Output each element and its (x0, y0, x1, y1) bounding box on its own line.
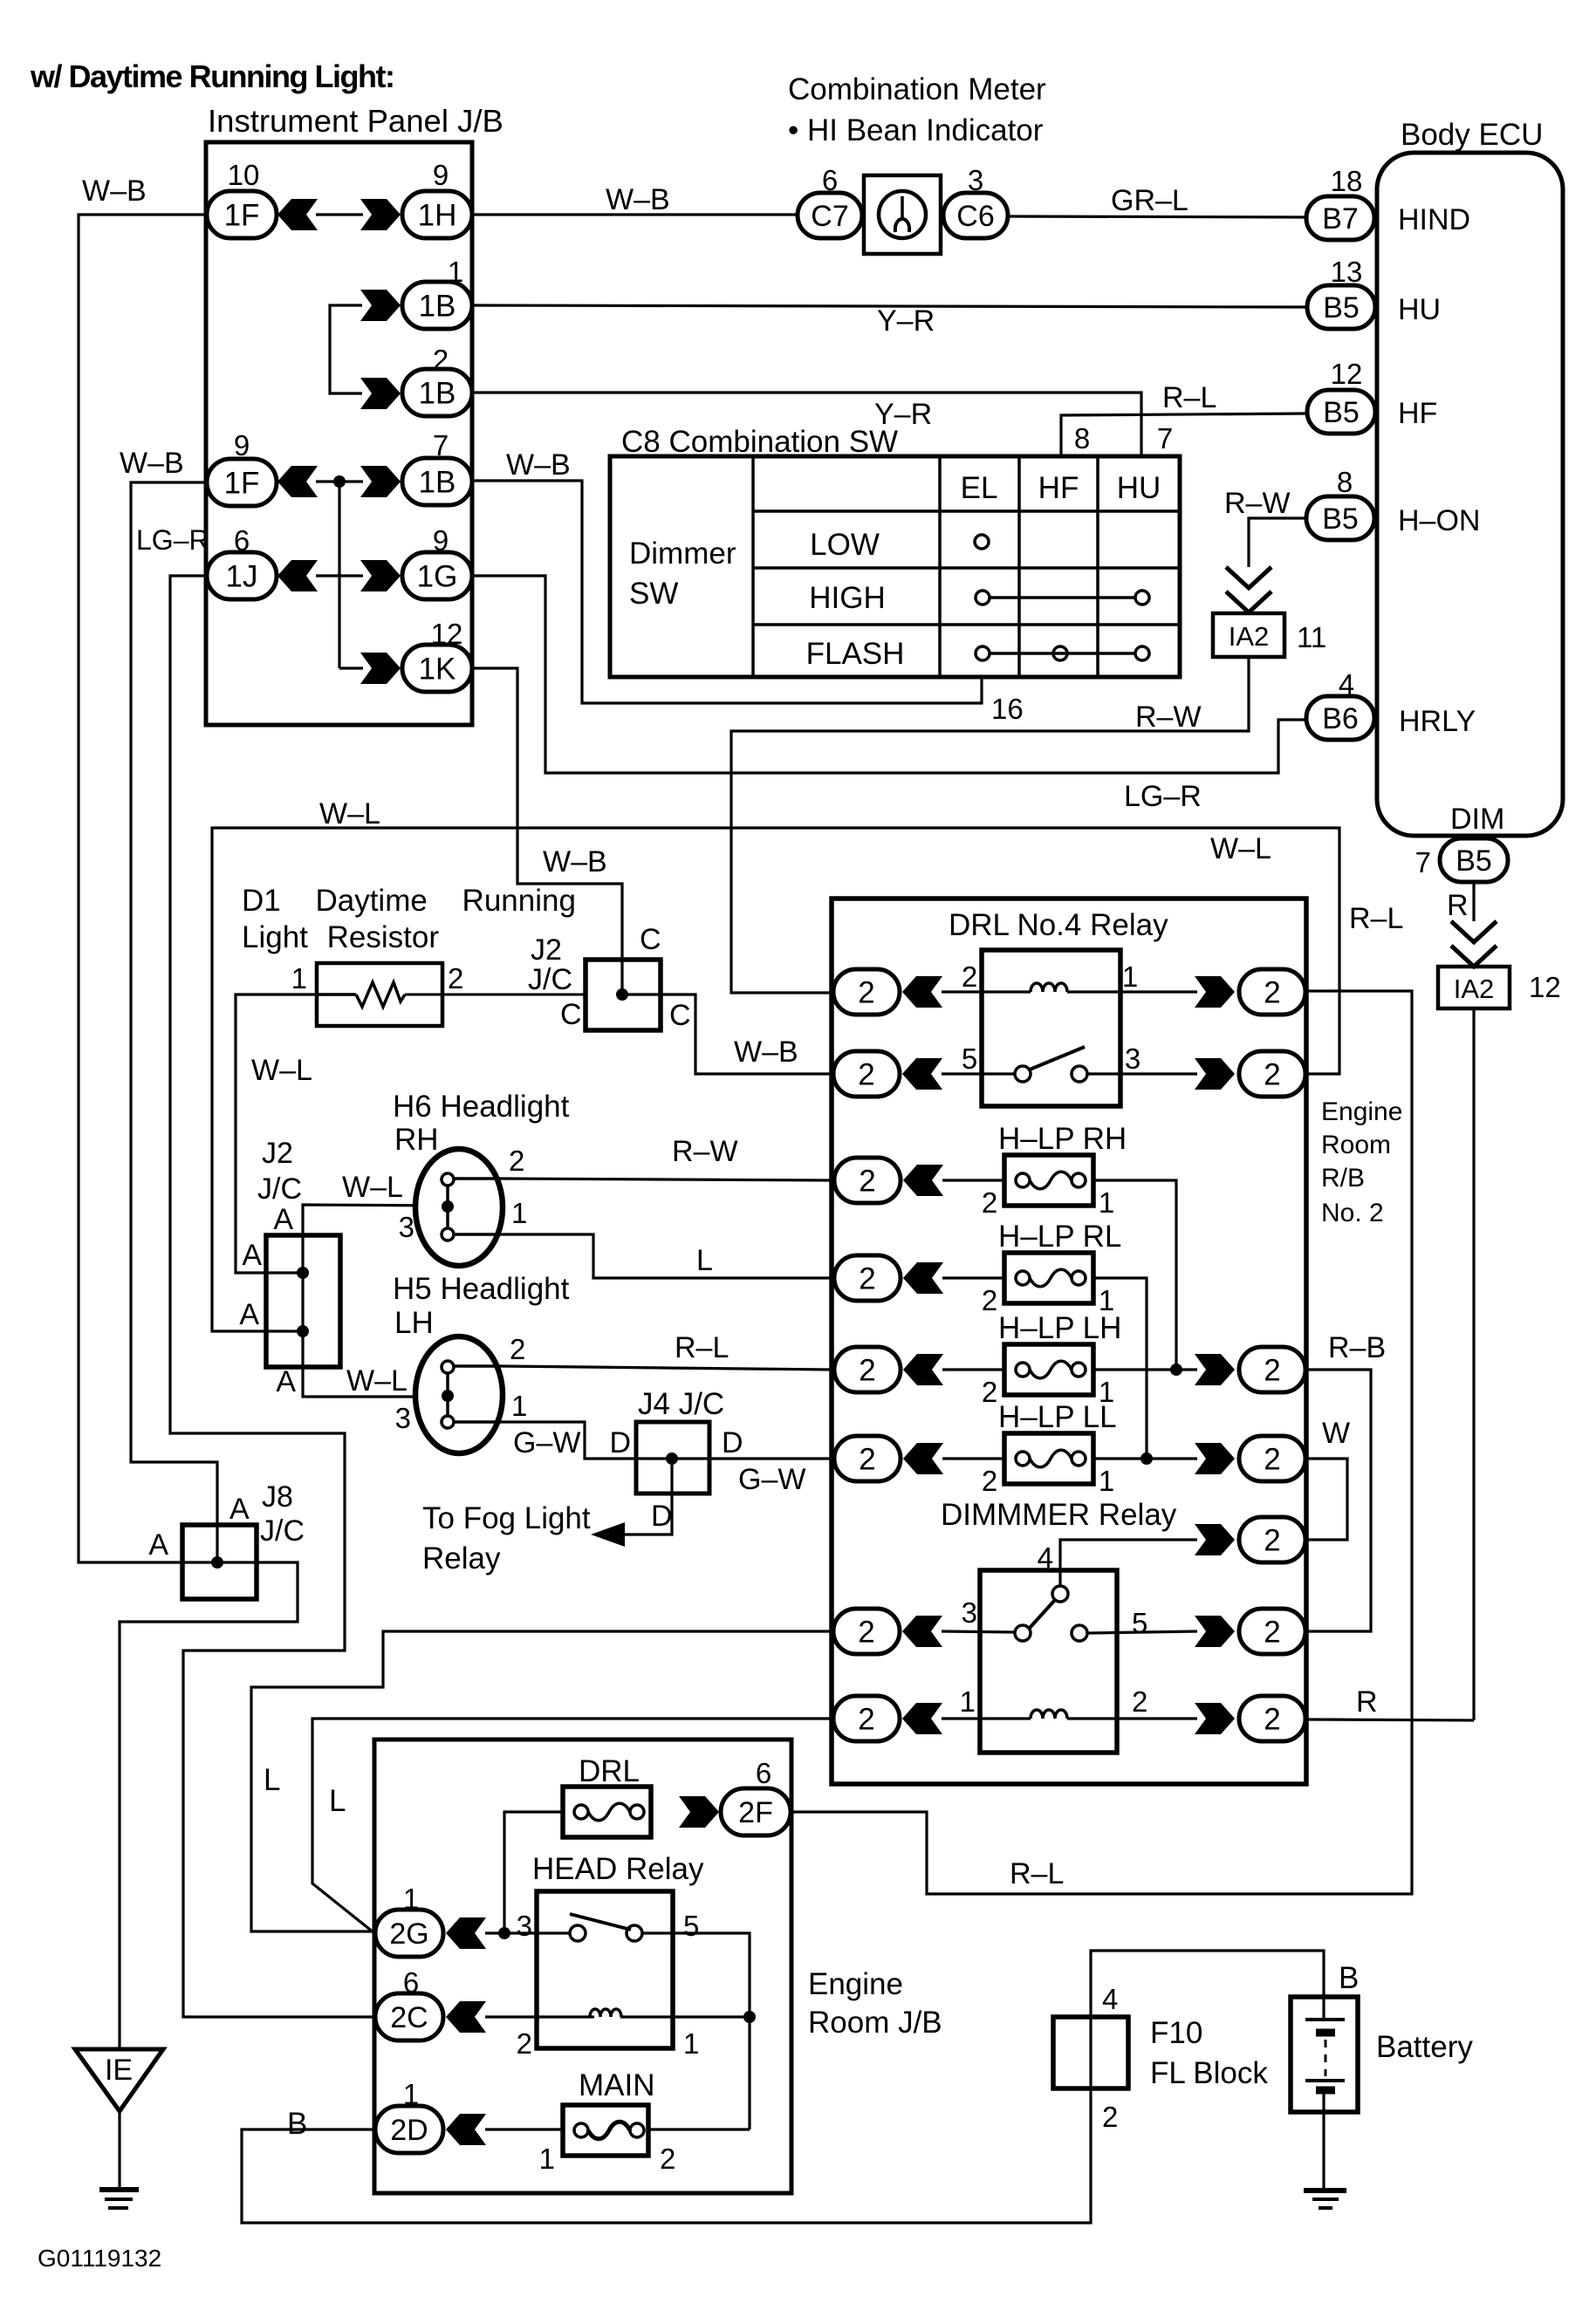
svg-text:2: 2 (509, 1145, 524, 1177)
svg-text:C: C (669, 999, 691, 1032)
svg-text:2: 2 (859, 1165, 875, 1199)
label C right (669, 999, 691, 1032)
label W-L H6 (342, 1171, 403, 1204)
svg-text:H–ON: H–ON (1398, 504, 1480, 537)
svg-text:L: L (696, 1244, 713, 1277)
svg-text:B5: B5 (1323, 291, 1360, 325)
svg-text:To Fog Light: To Fog Light (422, 1501, 591, 1535)
connector 1F pin 9 (207, 429, 277, 506)
wire W-B from 1F10 to J8 (79, 215, 218, 1562)
svg-text:B6: B6 (1322, 702, 1359, 735)
junction dot J4 (666, 1452, 678, 1465)
wire 2G row (485, 1931, 579, 1934)
wire DIMMMER coil row (942, 1717, 1197, 1719)
label H–LP LH (998, 1311, 1121, 1345)
connector 2 DIMMMER pin5 right (1195, 1609, 1305, 1654)
svg-text:W–L: W–L (1210, 832, 1271, 865)
svg-text:2: 2 (510, 1333, 525, 1365)
svg-text:2: 2 (1264, 1443, 1280, 1477)
table divider vertical HU (1096, 456, 1099, 677)
wire W-L J2A to H5 (303, 1367, 448, 1397)
label F10 pin 4 (1102, 1983, 1118, 2015)
label H–LP LH pin1 (1099, 1376, 1114, 1408)
label HI Bean Indicator (788, 113, 1044, 147)
svg-text:1: 1 (1099, 1465, 1114, 1497)
label J2 J/C C-net (528, 933, 572, 996)
connector 2 H–LP LH left (834, 1347, 943, 1392)
label W-L left (319, 797, 380, 830)
HI beam indicator bulb (864, 175, 941, 254)
label Y-R upper (877, 304, 935, 338)
wire internal 1B1-1B2 (330, 305, 362, 393)
junction dot H5 pin3 (442, 1390, 454, 1402)
svg-text:w/ Daytime Running Light:: w/ Daytime Running Light: (30, 58, 394, 94)
fuse H–LP RL (1004, 1253, 1093, 1303)
connector 1B pin 1 (402, 256, 472, 329)
wire L dimmer coil to 2G (312, 1719, 833, 1932)
junction connector J2 J/C A-net box (266, 1235, 340, 1367)
table divider vertical dimmer (751, 456, 755, 677)
junction dot J2A upper (297, 1267, 309, 1279)
label H6 Headlight RH (393, 1090, 570, 1157)
svg-text:A: A (239, 1298, 259, 1331)
label H–LP RH pin2 (982, 1186, 997, 1219)
svg-text:6: 6 (403, 1966, 419, 1999)
svg-text:GR–L: GR–L (1111, 184, 1188, 217)
label DRL pin 3 (1125, 1042, 1140, 1075)
svg-text:D: D (609, 1426, 631, 1459)
svg-text:DRL No.4 Relay: DRL No.4 Relay (949, 908, 1168, 942)
svg-text:11: 11 (1297, 621, 1326, 653)
svg-text:2: 2 (1264, 1354, 1280, 1388)
junction block Instrument Panel J/B box (206, 142, 472, 725)
svg-text:2D: 2D (390, 2114, 428, 2147)
svg-text:• HI Bean Indicator: • HI Bean Indicator (788, 113, 1044, 147)
svg-text:IA2: IA2 (1229, 621, 1270, 652)
svg-text:HU: HU (1117, 471, 1161, 505)
svg-text:W–B: W–B (543, 845, 607, 878)
label DRL fuse (579, 1754, 640, 1788)
connector 2 DIMMMER coil right (1195, 1696, 1305, 1741)
fuse DRL (563, 1787, 651, 1837)
label EL (961, 471, 998, 505)
wire L dimmer pin3 to 2G (251, 1631, 833, 1931)
ground triangle IE (75, 2049, 163, 2111)
fuse H–LP LL (1004, 1433, 1093, 1484)
svg-text:2: 2 (859, 1354, 875, 1388)
svg-text:D: D (651, 1500, 673, 1533)
wire W (1307, 1459, 1347, 1540)
label Engine Room R/B No.2 (1321, 1097, 1402, 1227)
svg-text:3: 3 (968, 164, 983, 196)
label HEAD pin 2 (517, 2027, 532, 2060)
Engine Room R/B No.2 box (832, 899, 1306, 1784)
wire to fog light relay (591, 1459, 672, 1547)
relay HEAD box (537, 1891, 673, 2048)
svg-text:FLASH: FLASH (806, 637, 905, 671)
arrow pair row 1F-1H (277, 199, 401, 230)
label W-B 1F9 (120, 447, 184, 480)
svg-text:8: 8 (1074, 422, 1090, 455)
label J4 J/C (638, 1387, 724, 1421)
connector 2 H-LP LH right (1195, 1347, 1305, 1392)
junction dot HEAD coil out (743, 2011, 756, 2023)
svg-text:SW: SW (629, 577, 678, 611)
connector 1H pin 9 (402, 159, 472, 238)
svg-text:Engine: Engine (808, 1967, 903, 2001)
relay coil DIMMMER (1031, 1710, 1067, 1719)
svg-text:HIGH: HIGH (809, 581, 886, 615)
label Y-R lower (874, 398, 932, 431)
wire IE to ground (118, 2111, 120, 2189)
svg-text:J/C: J/C (257, 1172, 302, 1206)
wire W-L J2A to H6 (303, 1205, 448, 1235)
relay switch HEAD (570, 1914, 642, 1941)
label J2 J/C A-net (257, 1137, 302, 1206)
svg-text:R–L: R–L (675, 1331, 729, 1364)
label W-L right (1210, 832, 1271, 865)
svg-text:HRLY: HRLY (1399, 705, 1476, 738)
label Light Resistor (242, 920, 439, 954)
connector B5 H-ON pin 8 (1306, 466, 1480, 540)
svg-text:2: 2 (660, 2143, 675, 2175)
svg-text:W–B: W–B (82, 174, 147, 208)
label C left (560, 998, 582, 1031)
label DRL pin 1 (1122, 960, 1138, 993)
label J8 J/C (260, 1480, 305, 1548)
svg-text:Room J/B: Room J/B (808, 2006, 942, 2040)
label H–LP RH (998, 1122, 1127, 1156)
svg-text:5: 5 (1132, 1607, 1147, 1639)
label W-B 1B7 (506, 448, 571, 482)
label HEAD pin 3 (517, 1910, 532, 1942)
svg-text:G01119132: G01119132 (38, 2245, 161, 2272)
svg-text:1: 1 (403, 2078, 419, 2110)
arrow into 1K (339, 653, 401, 684)
svg-text:8: 8 (1337, 466, 1353, 498)
label pin 7 comb SW (1157, 422, 1173, 455)
svg-text:J8: J8 (262, 1480, 293, 1514)
label B battery (1339, 1961, 1359, 1995)
label R-W H6 (672, 1135, 738, 1168)
svg-text:DRL: DRL (579, 1754, 640, 1788)
svg-text:C: C (560, 998, 582, 1031)
svg-text:5: 5 (683, 1910, 699, 1942)
svg-text:9: 9 (234, 429, 250, 461)
svg-text:C7: C7 (811, 200, 848, 233)
label D right (722, 1426, 743, 1459)
label R-L H5 (675, 1331, 729, 1364)
svg-text:W–B: W–B (506, 448, 571, 482)
svg-text:IA2: IA2 (1454, 974, 1495, 1004)
svg-text:1H: 1H (418, 199, 457, 233)
label A left lower (239, 1298, 259, 1331)
svg-text:B: B (1339, 1961, 1359, 1995)
wire R dimmer coil out (1307, 1719, 1474, 1720)
svg-text:6: 6 (822, 164, 838, 196)
headlight H6 bulb (415, 1149, 503, 1266)
svg-text:1: 1 (511, 1197, 527, 1229)
svg-text:Y–R: Y–R (874, 398, 932, 431)
svg-text:W–B: W–B (734, 1036, 798, 1069)
svg-text:1J: 1J (226, 560, 258, 594)
svg-text:R: R (1356, 1685, 1378, 1719)
figure number G01119132 (38, 2245, 161, 2272)
connector 2 DRL switch right (1195, 1051, 1305, 1097)
label R DIM (1447, 889, 1469, 922)
switch LOW contact (975, 535, 989, 549)
label W-B DRL5 (734, 1036, 798, 1069)
wire G-W H5 pin1 to J4 (501, 1422, 831, 1459)
relay coil DRL No.4 (1031, 983, 1067, 992)
svg-text:LG–R: LG–R (136, 524, 209, 556)
relay switch DIMMMER (1015, 1586, 1087, 1641)
label pin 16 (991, 693, 1024, 725)
H5 filament (442, 1361, 501, 1428)
connector 1B pin 2 (402, 344, 472, 416)
label To Fog Light Relay (422, 1501, 591, 1576)
wire R IA2-12 to dimmer relay (1472, 1008, 1475, 1720)
svg-text:3: 3 (962, 1596, 977, 1629)
svg-text:HU: HU (1398, 293, 1441, 326)
svg-text:W–B: W–B (606, 183, 670, 216)
relay coil HEAD (590, 2009, 621, 2017)
svg-text:6: 6 (756, 1757, 771, 1789)
connector 2C pin 6 (375, 1966, 486, 2040)
svg-text:2: 2 (1264, 1616, 1280, 1650)
svg-text:1: 1 (539, 2143, 555, 2175)
svg-text:9: 9 (433, 524, 449, 557)
label Body ECU (1401, 118, 1543, 152)
svg-text:R: R (1447, 889, 1469, 922)
label R-L bottom (1010, 1857, 1064, 1890)
label MAIN pin 1 (539, 2143, 555, 2175)
relay DRL No.4 box (982, 950, 1120, 1106)
connector B5 HF pin 12 (1307, 358, 1437, 434)
connector C7 (798, 164, 862, 238)
svg-text:Room: Room (1321, 1131, 1391, 1159)
label L inner (329, 1784, 346, 1818)
label DIMMMER pin 5 (1132, 1607, 1147, 1639)
label A J8 left (148, 1528, 168, 1562)
svg-text:2: 2 (982, 1465, 997, 1497)
label DIMMMER Relay (941, 1498, 1177, 1532)
svg-text:C6: C6 (956, 200, 994, 233)
label HEAD Relay (532, 1852, 704, 1886)
label HF col (1038, 471, 1079, 505)
svg-text:R–L: R–L (1162, 381, 1216, 414)
FL block F10 box (1053, 2017, 1128, 2088)
svg-text:LG–R: LG–R (1124, 780, 1202, 813)
svg-text:2: 2 (448, 962, 463, 995)
svg-text:1B: 1B (419, 377, 456, 411)
svg-text:4: 4 (1102, 1983, 1118, 2015)
label H6 pin 2 (509, 1145, 524, 1177)
connector 1K pin 12 (402, 618, 472, 692)
svg-text:A: A (229, 1493, 250, 1526)
connector 1G pin 9 (402, 524, 472, 599)
wire H-LP LH out (1093, 1368, 1197, 1370)
wire Y-R 1B2 to comb SW pin7 (472, 393, 1141, 456)
connector 2 DIMMMER pin4 right (1195, 1517, 1305, 1562)
label G-W right (738, 1463, 805, 1496)
svg-text:W–L: W–L (346, 1364, 408, 1398)
wire 2D row (485, 2128, 750, 2130)
svg-text:1: 1 (683, 2027, 699, 2060)
svg-text:L: L (264, 1763, 280, 1797)
wire R-W IA2 to DRL relay coil (731, 657, 1249, 993)
label W-B 1H-C7 (606, 183, 670, 216)
svg-text:2: 2 (433, 344, 449, 376)
H6 filament (442, 1173, 501, 1241)
junction connector J4 J/C box (636, 1422, 709, 1494)
label D bottom (651, 1500, 673, 1533)
svg-text:Dimmer: Dimmer (629, 537, 736, 571)
connector 2 DRL coil right (1195, 969, 1305, 1015)
svg-text:1: 1 (511, 1390, 527, 1422)
wire DIMMMER pin4 (1060, 1540, 1197, 1587)
svg-text:2: 2 (1264, 1703, 1280, 1737)
wire H–LP RL row left (942, 1276, 1004, 1279)
label F10 (1150, 2016, 1202, 2050)
connector 1F pin 10 (207, 159, 277, 238)
svg-text:1: 1 (1122, 960, 1138, 993)
connector 2 DRL coil left (833, 960, 977, 1015)
label H–LP RL pin1 (1099, 1284, 1114, 1316)
svg-text:7: 7 (433, 429, 449, 461)
svg-text:DIMMMER Relay: DIMMMER Relay (941, 1498, 1177, 1532)
label FL Block (1150, 2056, 1268, 2090)
label D1 pin 1 (291, 962, 307, 995)
battery plates (1305, 2020, 1345, 2090)
label Battery (1376, 2030, 1473, 2064)
svg-text:MAIN: MAIN (579, 2068, 655, 2102)
svg-text:A: A (148, 1528, 168, 1562)
label R-W upper (1224, 487, 1291, 520)
svg-text:B: B (287, 2107, 307, 2141)
svg-text:1F: 1F (224, 467, 260, 501)
connector 2 DIMMMER coil left (833, 1685, 976, 1741)
connector 2D pin 1 (375, 2078, 486, 2153)
chevron arrows IA2 12 (1451, 921, 1497, 967)
label A bottom (276, 1365, 296, 1398)
svg-text:LOW: LOW (810, 528, 880, 562)
svg-text:D1 Daytime Running: D1 Daytime Running (242, 884, 576, 918)
label R-L relay out (1349, 902, 1403, 935)
wire R-L combsw to B5 HF (1061, 414, 1307, 456)
label HU col (1117, 471, 1161, 505)
label L outer (264, 1763, 280, 1797)
label HEAD pin 5 (683, 1910, 699, 1942)
wire 2C row (485, 2015, 750, 2018)
wire H-LP RH out (1093, 1180, 1176, 1370)
svg-text:R–L: R–L (1349, 902, 1403, 935)
arrow pair row 1J-1G (277, 560, 401, 591)
wire H–LP LL row left (942, 1457, 1004, 1459)
connector B6 HRLY pin 4 (1306, 668, 1476, 740)
label H–LP LL pin1 (1099, 1465, 1114, 1497)
label Dimmer SW (629, 537, 736, 611)
junction dot row 1F9 (333, 475, 346, 488)
wire battery to ground (1322, 2090, 1325, 2190)
wire B 2D to battery (242, 1951, 1324, 2223)
svg-text:LH: LH (394, 1306, 434, 1340)
arrow into 1B pin2 (360, 378, 401, 409)
svg-text:R/B: R/B (1321, 1164, 1365, 1193)
wire W-B J2 to DRL pin5 (622, 995, 833, 1074)
label H–LP RL pin2 (982, 1284, 997, 1316)
label A J8 top (229, 1493, 250, 1526)
fuse H–LP LH (1004, 1344, 1093, 1395)
svg-text:Engine: Engine (1321, 1097, 1402, 1126)
table divider horizontal low (753, 566, 1180, 570)
connector 2 DIMMMER pin3 left (833, 1596, 977, 1654)
svg-text:J/C: J/C (528, 963, 572, 996)
svg-text:7: 7 (1415, 846, 1431, 878)
chevron arrows IA2 11 (1226, 567, 1271, 612)
connector 2 H–LP RL left (834, 1255, 943, 1301)
label Instrument Panel J/B (208, 103, 503, 139)
svg-text:7: 7 (1157, 422, 1173, 455)
svg-text:6: 6 (234, 524, 250, 557)
svg-text:H5 Headlight: H5 Headlight (393, 1272, 570, 1306)
switch HIGH contacts (976, 591, 1149, 605)
label G-W left (513, 1426, 580, 1459)
svg-text:A: A (273, 1203, 293, 1236)
label Engine Room J/B (808, 1967, 942, 2040)
table divider vertical EL (938, 456, 942, 677)
wire DRL switch row (942, 1072, 1197, 1075)
svg-text:16: 16 (991, 693, 1024, 725)
svg-text:L: L (329, 1784, 346, 1818)
connector 1B pin 7 (402, 429, 472, 505)
arrow into 1B pin1 (360, 290, 401, 321)
svg-text:B5: B5 (1456, 844, 1492, 878)
svg-text:Battery: Battery (1376, 2030, 1473, 2064)
junction connector J8 J/C box (182, 1525, 257, 1599)
wire LG-R 1G to B6 (472, 576, 1307, 773)
wire R-L H5 pin2 to fuse (501, 1366, 831, 1370)
svg-text:3: 3 (517, 1910, 532, 1942)
wire LG-R from 1J to 2C (170, 576, 375, 2017)
label W (1322, 1417, 1350, 1450)
fuse MAIN (563, 2105, 648, 2156)
svg-text:9: 9 (433, 159, 449, 191)
wire W-B 1K to J2 (472, 668, 622, 995)
switch FLASH contacts (976, 646, 1149, 660)
label H6 pin 3 (399, 1211, 414, 1243)
svg-text:F10: F10 (1150, 2016, 1202, 2050)
svg-text:DIM: DIM (1450, 803, 1504, 836)
svg-text:R–W: R–W (1224, 487, 1291, 520)
label C8 Combination SW (621, 425, 898, 459)
svg-text:Relay: Relay (422, 1541, 501, 1576)
svg-text:2: 2 (517, 2027, 532, 2060)
svg-text:Instrument Panel J/B: Instrument Panel J/B (208, 103, 503, 139)
svg-text:R–B: R–B (1328, 1331, 1386, 1364)
svg-text:RH: RH (394, 1123, 439, 1157)
svg-text:3: 3 (399, 1211, 414, 1243)
label H–LP LL pin2 (982, 1465, 997, 1497)
svg-text:2: 2 (982, 1376, 997, 1408)
svg-text:B5: B5 (1323, 396, 1360, 429)
svg-text:4: 4 (1339, 668, 1354, 701)
svg-text:Light Resistor: Light Resistor (242, 920, 439, 954)
wire Y-R 1B1 to B5 HU (472, 305, 1307, 307)
wire R-L DRL relay out (791, 991, 1412, 1894)
relay switch DRL No.4 (1015, 1047, 1087, 1082)
wire R-W H6 pin2 to fuse (501, 1179, 831, 1180)
